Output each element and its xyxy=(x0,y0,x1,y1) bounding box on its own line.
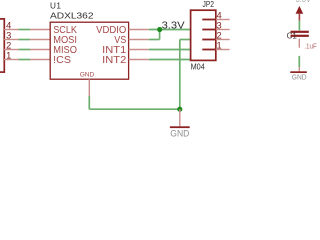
svg-text:4: 4 xyxy=(217,11,222,21)
svg-text:!CS: !CS xyxy=(53,55,71,66)
svg-text:4: 4 xyxy=(6,20,11,30)
capacitor bottom stub xyxy=(298,39,300,48)
wire !CS net xyxy=(19,59,31,61)
svg-text:2: 2 xyxy=(217,31,222,41)
capacitor C1 plate top xyxy=(291,31,309,33)
JP2 inner dash pin 4 xyxy=(202,19,216,21)
svg-text:1: 1 xyxy=(6,50,11,60)
svg-text:C1: C1 xyxy=(287,31,298,40)
supply 3.3V arrow xyxy=(296,7,302,14)
wire GND to JP2 pin2 xyxy=(180,39,191,41)
svg-text:JP2: JP2 xyxy=(203,0,215,9)
IC GND pin stub (bottom) xyxy=(88,79,90,96)
JP2 outer stub 2 xyxy=(216,39,230,41)
wire riser at 3.3V junction xyxy=(159,30,161,40)
JP1 pin stub 4 xyxy=(4,29,19,31)
wire supply to capacitor xyxy=(298,21,300,31)
JP1 pin stub 2 xyxy=(4,49,19,51)
JP2 inner dash pin 2 xyxy=(202,39,216,41)
svg-text:3: 3 xyxy=(6,30,11,40)
wire SCLK net xyxy=(19,29,31,31)
ground symbol (right) bar xyxy=(290,71,307,73)
connector JP1 (left, partially off-canvas) xyxy=(0,19,4,72)
IC U1 pin stub MISO xyxy=(30,49,50,51)
connector JP2 xyxy=(191,10,216,60)
IC U1 box xyxy=(50,22,128,79)
IC U1 pin stub VDDIO xyxy=(129,29,149,31)
JP2 outer stub 3 xyxy=(216,29,230,31)
wire GND riser xyxy=(179,40,181,110)
wire VS row xyxy=(149,39,160,41)
IC U1 pin stub !CS xyxy=(30,59,50,61)
capacitor C1 plate bottom xyxy=(291,35,309,37)
wire GND from IC down xyxy=(88,96,90,109)
wire MISO net xyxy=(19,49,31,51)
svg-text:GND: GND xyxy=(292,73,307,82)
JP2 inner dash pin 1 xyxy=(202,49,216,51)
IC U1 pin stub SCLK xyxy=(30,29,50,31)
ground symbol (right) stub xyxy=(298,67,300,71)
wire capacitor to ground xyxy=(298,56,300,67)
wire INT2 row xyxy=(149,59,191,61)
JP1 pin stub 3 xyxy=(4,39,19,41)
IC U1 pin stub VS xyxy=(129,39,149,41)
svg-text:ADXL362: ADXL362 xyxy=(50,12,94,21)
svg-text:2: 2 xyxy=(6,40,11,50)
svg-text:1: 1 xyxy=(217,41,222,51)
wire INT1 row xyxy=(149,49,191,51)
junction dot 3.3V xyxy=(157,27,162,32)
IC U1 pin stub INT2 xyxy=(129,59,149,61)
svg-text:U1: U1 xyxy=(50,2,61,11)
svg-text:INT2: INT2 xyxy=(102,55,127,66)
IC U1 pin stub INT1 xyxy=(129,49,149,51)
svg-text:M04: M04 xyxy=(191,62,205,72)
svg-text:3.3V: 3.3V xyxy=(162,21,185,32)
svg-text:GND: GND xyxy=(170,129,189,139)
junction dot GND xyxy=(177,107,182,112)
wire GND horizontal xyxy=(89,108,180,110)
svg-text:.1uF: .1uF xyxy=(304,41,317,50)
supply arrow stem xyxy=(298,13,300,20)
svg-text:GND: GND xyxy=(80,72,95,79)
IC U1 pin stub MOSI xyxy=(30,39,50,41)
JP2 inner dash pin 3 xyxy=(202,29,216,31)
wire 3.3V net VDDIO row xyxy=(149,29,191,31)
ground symbol (middle) xyxy=(179,109,181,126)
JP2 outer stub 4 xyxy=(216,19,230,21)
JP2 outer stub 1 xyxy=(216,49,230,51)
svg-text:3: 3 xyxy=(217,21,222,31)
JP1 pin stub 1 xyxy=(4,59,19,61)
wire MOSI net xyxy=(19,39,31,41)
svg-text:3.3V: 3.3V xyxy=(296,0,312,4)
